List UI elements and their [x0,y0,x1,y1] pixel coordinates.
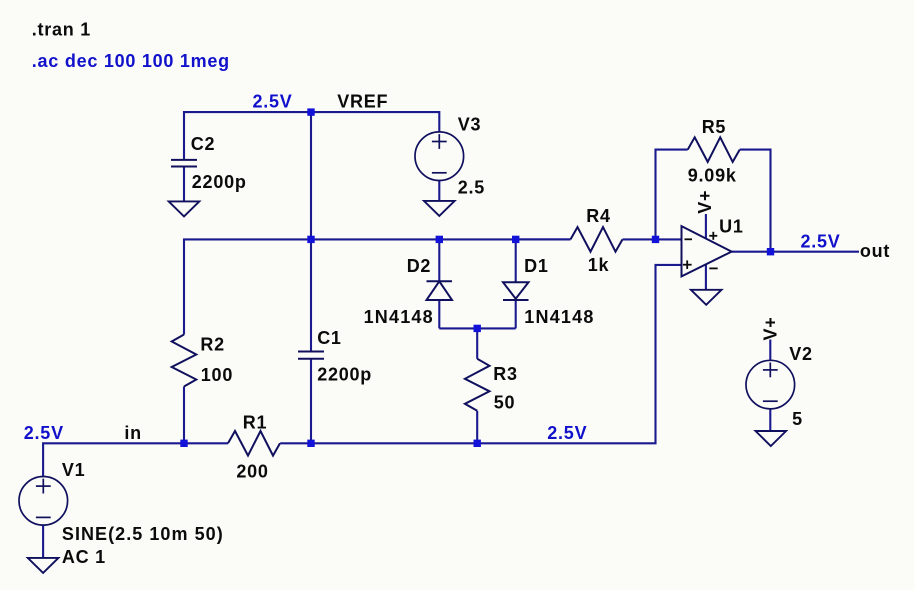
node junction bottom rail / R3 [474,440,481,447]
wire V3 bottom to ground [438,181,440,201]
wire R2 bottom [183,387,185,444]
svg-text:D1: D1 [524,256,549,276]
voltage source symbol V3 [415,132,464,181]
op-amp V+ power mark [709,235,717,237]
wire R4 left stub [516,238,571,240]
svg-text:100: 100 [201,365,233,385]
svg-text:C2: C2 [191,134,216,154]
voltage source symbol V1 [19,477,68,526]
wire C1 bottom [310,359,312,444]
svg-text:2.5V: 2.5V [547,423,587,443]
wire bottom rail left (V1 to R1) [43,443,228,476]
svg-text:200: 200 [236,461,268,481]
wire D2 top [438,239,440,281]
wire mid rail left segment [184,239,571,334]
node junction bottom rail / C1 [307,440,314,447]
wire D2 bottom [438,300,440,328]
svg-text:U1: U1 [719,217,744,237]
wire D1 top [515,239,517,282]
svg-text:V+: V+ [695,190,715,214]
op-amp inverting input mark [685,238,693,240]
wire op-amp V+ pin [705,214,707,239]
svg-text:2.5V: 2.5V [253,92,293,112]
ground (V3) [424,201,455,216]
wire diode bottom rail [439,327,515,329]
resistor R3 [465,359,490,411]
node junction output / R5 [767,248,774,255]
wire R3 bottom [476,411,478,444]
node junction top rail / C1 column [307,108,314,115]
node junction diode rail / R3 [474,325,481,332]
node junction mid rail / C1 [307,236,314,243]
svg-text:.tran 1: .tran 1 [32,20,91,40]
ground (C2) [169,201,200,216]
op-amp V- power mark [709,267,717,269]
svg-text:2.5V: 2.5V [24,423,64,443]
svg-text:50: 50 [494,393,516,413]
wire D1 bottom [515,300,517,328]
svg-text:in: in [124,423,141,443]
svg-text:V2: V2 [789,344,813,364]
diode D1 (cathode down) [503,282,529,299]
wire R3 top [476,328,478,358]
ground (V2) [756,431,787,446]
wire V2 top pin [769,340,771,360]
op-amp non-inverting input mark [683,264,692,266]
svg-text:SINE(2.5 10m 50): SINE(2.5 10m 50) [62,524,224,544]
wire bottom rail right (R1 to op-amp + input) [280,265,681,443]
svg-text:2200p: 2200p [317,364,372,384]
wire C1 top [310,239,312,351]
svg-text:out: out [860,241,890,261]
wire C2 bottom to ground [183,167,185,202]
svg-text:D2: D2 [407,256,432,276]
capacitor C2 [171,159,197,161]
svg-text:5: 5 [792,409,803,429]
resistor R2 [172,335,197,387]
svg-text:R1: R1 [243,413,268,433]
svg-text:C1: C1 [317,328,342,348]
svg-text:R2: R2 [200,334,225,354]
svg-text:R3: R3 [493,364,518,384]
svg-text:1N4148: 1N4148 [524,307,594,327]
ground (V1) [28,558,59,573]
wire R5 feedback right branch [740,150,771,252]
wire V1 bottom to ground [42,525,44,558]
node junction mid rail / R5 branch [652,236,659,243]
resistor R4 [571,227,623,252]
wire top rail 2.5V/VREF [184,112,439,160]
svg-text:2.5: 2.5 [458,177,485,197]
op-amp U1 triangle [682,226,732,276]
svg-text:1k: 1k [588,255,610,275]
wire column between top and mid rails [310,112,312,239]
svg-text:V1: V1 [62,460,86,480]
svg-text:.ac dec 100 100 1meg: .ac dec 100 100 1meg [32,51,230,71]
diode D2 (cathode up) [427,280,453,282]
svg-text:9.09k: 9.09k [688,166,737,186]
resistor R5 [688,137,740,162]
node junction mid rail / D1 [512,236,519,243]
node junction bottom rail / R2 [180,440,187,447]
svg-text:AC 1: AC 1 [62,547,106,567]
voltage source symbol V2 [746,360,795,409]
node junction mid rail / D2 [436,236,443,243]
svg-text:1N4148: 1N4148 [364,307,434,327]
wire V2 bottom to ground [769,410,771,432]
capacitor C1 [298,351,324,353]
ground (op-amp V-) [691,290,722,305]
svg-text:R5: R5 [702,117,727,137]
svg-text:R4: R4 [586,206,611,226]
svg-text:2200p: 2200p [192,172,247,192]
wire mid rail right segment (R4 to op-amp) [623,238,682,240]
wire R5 feedback left branch [656,150,688,240]
svg-text:2.5V: 2.5V [801,231,841,251]
wire op-amp V- pin [705,264,707,290]
wire op-amp output to out [732,251,859,253]
svg-text:VREF: VREF [337,92,388,112]
svg-text:V+: V+ [761,316,781,340]
svg-text:V3: V3 [458,115,482,135]
resistor R1 [228,431,280,456]
